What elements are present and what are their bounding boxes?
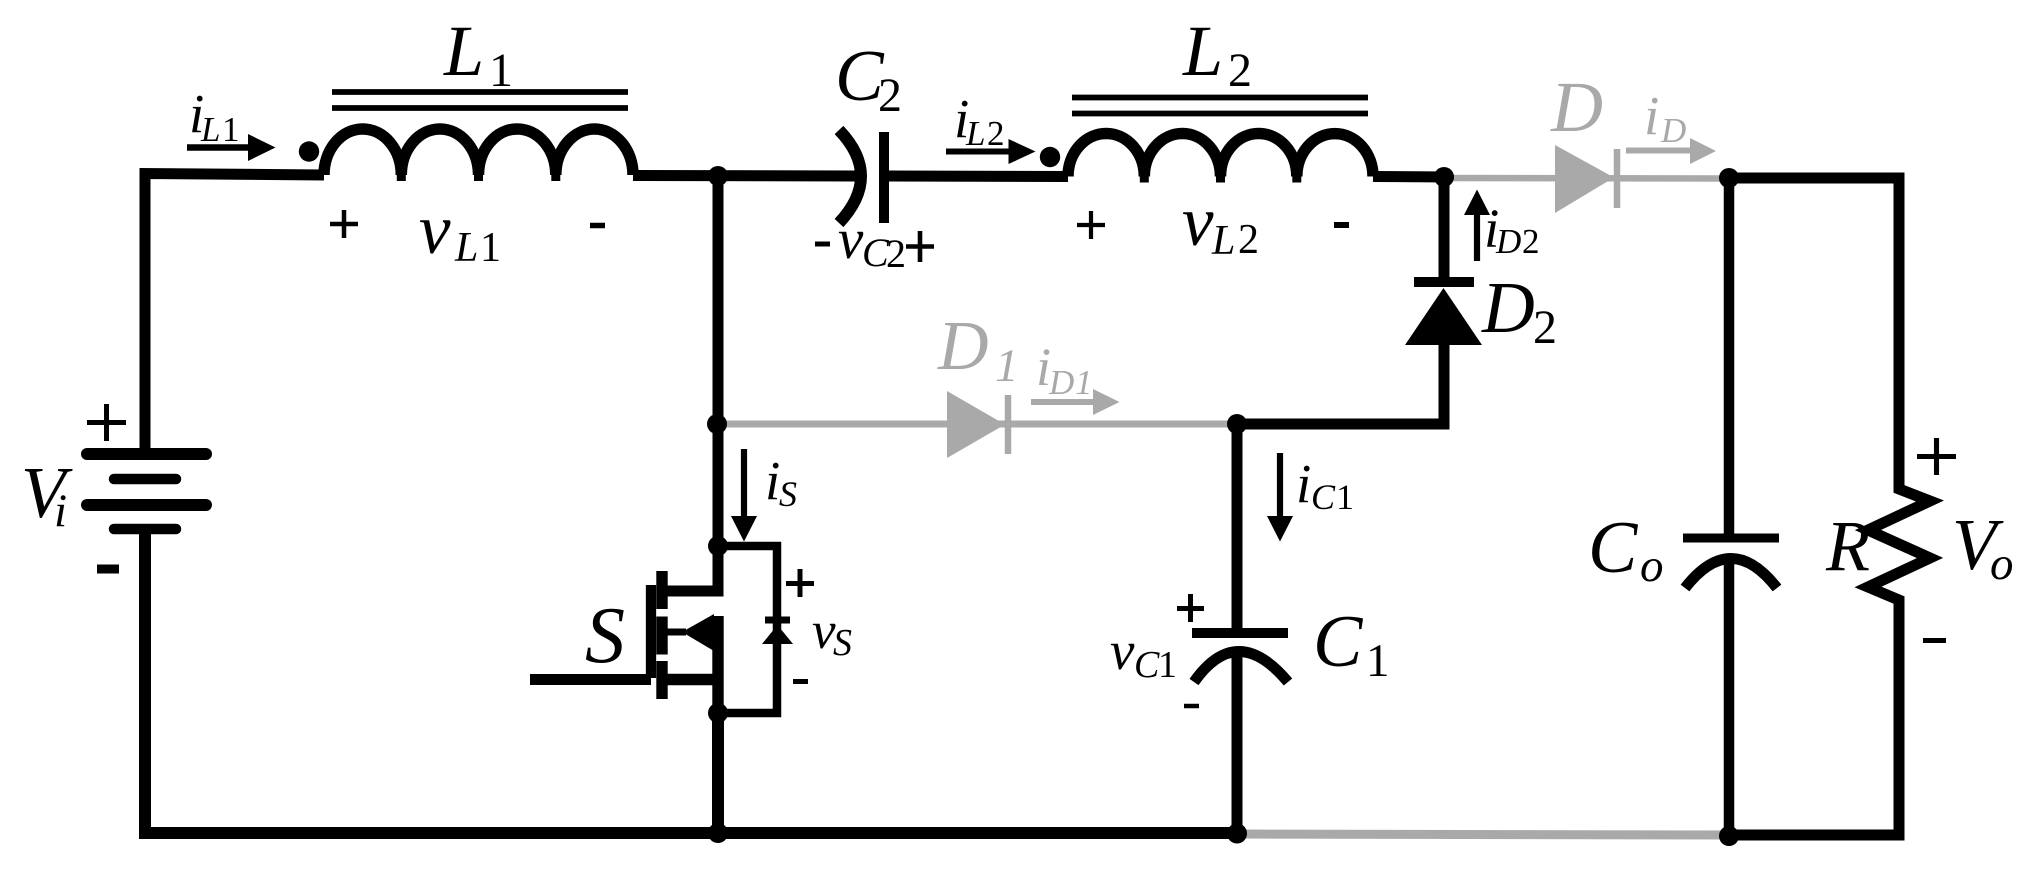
current arrow iL1: [187, 134, 276, 161]
wire: C2 to L2: [884, 171, 1068, 183]
svg-text:L: L: [200, 110, 220, 149]
battery Vi plate long bottom: [87, 499, 206, 511]
polarity dot L2: [1040, 147, 1060, 167]
inductor L2 core line 1: [1072, 95, 1368, 101]
transistor S gate lead: [530, 674, 651, 685]
polarity dot L1: [299, 141, 319, 161]
battery Vi plate short bottom: [114, 524, 176, 535]
transistor S body arrow: [682, 614, 714, 651]
svg-text:C: C: [1588, 507, 1639, 589]
svg-text:L: L: [965, 114, 985, 153]
inductor L1 coil: [324, 129, 633, 175]
label plus vL2: [1077, 211, 1105, 239]
svg-text:o: o: [1990, 538, 2014, 590]
transistor S gate bar: [646, 585, 656, 678]
wire: gray bottom rail segment: [1237, 834, 1730, 835]
wire: switch to bottom rail: [712, 713, 724, 833]
transistor S channel bar top: [656, 571, 667, 609]
inductor L2 cusp stubs: [1144, 174, 1297, 183]
svg-text:C: C: [1311, 477, 1336, 517]
svg-text:D: D: [1048, 363, 1074, 402]
wire: Co branch upper: [1724, 178, 1735, 538]
body diode bar: [765, 617, 790, 624]
diode D2 cathode bar: [1414, 277, 1474, 287]
diode D2 triangle: [1405, 288, 1482, 345]
diode D gray cathode bar: [1614, 149, 1621, 208]
svg-text:S: S: [833, 622, 852, 664]
transistor S body stub: [667, 629, 686, 636]
diode D1 gray triangle: [947, 391, 1005, 458]
capacitor Co flat plate: [1683, 534, 1779, 543]
label minus Vo: [1923, 638, 1946, 643]
svg-text:i: i: [765, 450, 780, 511]
svg-text:D: D: [1550, 67, 1603, 147]
label plus vC2: [906, 231, 934, 262]
wire: top-left from source corner to L1: [145, 174, 324, 450]
wire: C1 branch upper: [1232, 424, 1243, 633]
wire: switch column vertical upper: [713, 175, 724, 547]
svg-text:1: 1: [1075, 363, 1093, 402]
transistor S channel bar bottom: [656, 661, 667, 699]
wire: left vertical below battery and black bottom rail: [145, 534, 1237, 833]
svg-text:v: v: [1110, 620, 1135, 681]
current arrow iD2: [1464, 190, 1490, 262]
current arrow iL2: [946, 139, 1036, 164]
label plus vS: [786, 569, 814, 597]
node dot mosfet drain: [708, 536, 728, 556]
svg-text:2: 2: [1522, 222, 1540, 261]
capacitor C2 curved plate: [839, 130, 861, 223]
battery Vi plate long top: [87, 448, 206, 460]
wire: gray diode D top branch: [1444, 175, 1730, 182]
wire: Co branch lower: [1724, 560, 1735, 835]
node dot output top: [1719, 168, 1739, 188]
battery Vi plate short: [114, 474, 176, 485]
svg-text:1: 1: [1336, 477, 1354, 517]
diode D gray triangle: [1555, 145, 1614, 213]
svg-text:L: L: [1182, 11, 1223, 91]
node dot L2 right: [1434, 167, 1454, 187]
label minus Vi: [97, 565, 119, 574]
wire: L2 to node: [1373, 171, 1450, 183]
inductor L1 core line 2: [332, 105, 628, 111]
current arrow iD1 gray: [1031, 389, 1120, 415]
svg-text:i: i: [1644, 85, 1659, 146]
inductor L2 coil: [1068, 133, 1373, 176]
svg-text:1: 1: [1158, 644, 1177, 686]
svg-text:L: L: [1211, 218, 1235, 264]
svg-text:R: R: [1825, 506, 1870, 586]
wire: mosfet drain jog: [663, 542, 718, 591]
current arrow iC1: [1267, 453, 1293, 542]
label minus vC1: [1184, 704, 1199, 709]
svg-text:1: 1: [995, 340, 1019, 392]
transistor S source vertical: [712, 616, 723, 716]
svg-text:1: 1: [222, 110, 240, 149]
svg-text:2: 2: [1238, 217, 1259, 263]
svg-text:S: S: [585, 592, 625, 680]
inductor L1 cusp stubs: [401, 172, 556, 181]
svg-text:D: D: [937, 308, 989, 385]
svg-text:2: 2: [1228, 44, 1252, 97]
svg-text:i: i: [54, 485, 67, 537]
svg-text:1: 1: [489, 44, 513, 97]
svg-text:o: o: [1640, 540, 1664, 592]
svg-text:L: L: [443, 11, 484, 91]
svg-text:2: 2: [1533, 301, 1557, 354]
svg-text:D: D: [1660, 111, 1686, 150]
node dot bottom output: [1719, 826, 1739, 846]
svg-text:S: S: [779, 474, 797, 514]
label plus vL1: [330, 210, 358, 238]
node dot bottom switch: [708, 823, 728, 843]
label minus vC2: [815, 242, 830, 247]
svg-text:L: L: [454, 225, 478, 271]
label plus vC1: [1177, 594, 1204, 622]
label minus vL2: [1334, 222, 1349, 228]
capacitor Co curved plate: [1685, 559, 1777, 589]
wire: output top rail, resistor R zigzag, bottom return: [1730, 178, 1930, 835]
capacitor C2 flat plate: [879, 132, 889, 223]
inductor L1 core line 1: [332, 89, 628, 95]
wire: C1 node to D2 elbow: [1237, 345, 1444, 424]
svg-text:D: D: [1481, 267, 1535, 348]
label minus vL1: [590, 223, 605, 229]
wire: body diode loop: [718, 546, 777, 713]
node dot D1 left: [707, 414, 727, 434]
diode D1 gray cathode bar: [1005, 395, 1012, 454]
svg-text:2: 2: [886, 231, 906, 276]
body diode triangle: [762, 625, 793, 644]
current arrow iD gray: [1626, 138, 1716, 164]
label plus Vi: [87, 404, 126, 441]
node dot bottom C1: [1227, 824, 1247, 844]
current arrow iS: [731, 449, 757, 542]
wire: gray D1 branch horizontal: [717, 421, 1237, 428]
svg-text:2: 2: [878, 69, 902, 122]
node dot C1 top: [1227, 414, 1247, 434]
svg-text:v: v: [419, 191, 451, 269]
node dot mosfet source: [708, 703, 728, 723]
wire: L1 to C2: [633, 170, 856, 182]
svg-text:C: C: [1313, 601, 1364, 683]
wire: D2 to top node: [1439, 177, 1450, 282]
svg-text:C: C: [1134, 644, 1160, 686]
wire: C1 branch lower: [1232, 654, 1243, 834]
capacitor C1 flat plate: [1192, 628, 1288, 638]
label minus vS: [793, 679, 808, 684]
capacitor C1 curved plate: [1194, 652, 1288, 683]
svg-text:D: D: [1495, 222, 1521, 261]
svg-text:1: 1: [1366, 635, 1390, 687]
svg-text:2: 2: [987, 114, 1005, 153]
inductor L2 core line 2: [1072, 111, 1368, 117]
svg-text:i: i: [1296, 453, 1311, 514]
node dot switch top: [708, 166, 728, 186]
svg-text:1: 1: [480, 225, 501, 271]
transistor S source horizontal: [663, 674, 714, 685]
svg-text:v: v: [1182, 183, 1214, 261]
transistor S channel bar middle: [656, 617, 667, 655]
svg-text:v: v: [838, 208, 864, 271]
label plus Vo: [1917, 438, 1956, 475]
